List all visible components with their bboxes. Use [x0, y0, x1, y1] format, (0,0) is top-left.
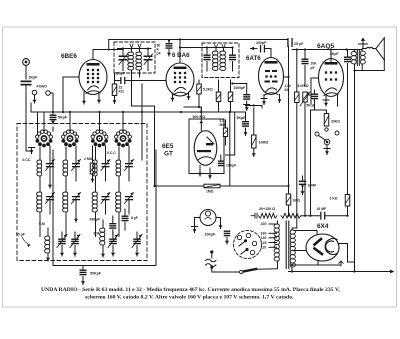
6E5 box — [189, 119, 224, 174]
wire bus y112 — [31, 103, 246, 113]
capacitor 5KpF output — [344, 50, 351, 195]
wafer ground — [29, 148, 35, 154]
gang trimmer 2 — [70, 232, 80, 256]
tube 6BE6 — [79, 60, 107, 95]
potentiometer 500K volume — [298, 84, 311, 216]
resistor 5,2K — [197, 80, 213, 107]
wire drop 2 — [43, 112, 45, 131]
ground ch2 — [74, 214, 78, 222]
wire OT down — [353, 64, 355, 272]
capacitor 10KpF eye — [218, 155, 237, 168]
tube 6BA6 — [166, 63, 194, 96]
svg-text:3 KΩ: 3 KΩ — [330, 197, 338, 201]
svg-text:430 pF: 430 pF — [90, 218, 101, 222]
padder coil ch1 — [45, 228, 50, 261]
T2 wire top — [179, 46, 234, 48]
label OM 1 — [39, 222, 45, 226]
svg-text:10KpF: 10KpF — [226, 164, 236, 168]
svg-text:30+130 Ω: 30+130 Ω — [259, 207, 275, 211]
svg-text:GT: GT — [164, 151, 173, 158]
wire T1 down right — [140, 70, 143, 160]
wire B+ row — [301, 215, 320, 217]
resistor 33K — [324, 114, 340, 132]
T1 primary coil — [128, 44, 134, 70]
svg-text:5,2KΩ: 5,2KΩ — [203, 88, 213, 92]
6AQ5 ground — [323, 96, 338, 107]
wire mid bus — [246, 104, 263, 108]
capacitor ch3 pad — [109, 216, 116, 235]
tube 6AT6 label — [246, 55, 261, 62]
oscillator coil set 1 — [37, 146, 55, 237]
gang trimmer 4 — [132, 232, 142, 256]
gang trimmer 1 — [57, 232, 67, 256]
svg-text:0,M: 0,M — [39, 222, 45, 226]
wire 6E5 right leads — [226, 112, 235, 186]
svg-text:500 KΩ: 500 KΩ — [193, 115, 206, 119]
wire T1 down left — [132, 70, 155, 106]
capacitor 150pF — [115, 72, 167, 85]
svg-text:16MF: 16MF — [308, 184, 317, 188]
capacitor 1000pF — [231, 82, 250, 110]
resistor 500K — [193, 108, 206, 131]
svg-text:6X4: 6X4 — [317, 223, 329, 230]
label OM 2 — [94, 232, 100, 236]
capacitor 10KpF coupling — [302, 50, 318, 87]
svg-text:UNDA RADIO - Serie R 63 modd.: UNDA RADIO - Serie R 63 modd. 11 e 32 - … — [41, 287, 340, 293]
wire drop 1 — [37, 112, 39, 133]
power transformer secondary — [290, 230, 295, 267]
wire 6AT6 cathode grounds — [261, 95, 282, 105]
resistor 30 ohm — [259, 213, 278, 218]
svg-text:2 MΩ: 2 MΩ — [84, 157, 93, 161]
tube 6AQ5 — [319, 59, 344, 97]
secondary leads — [292, 231, 317, 272]
6X4 cathode wire — [339, 244, 355, 263]
svg-text:10MΩ: 10MΩ — [259, 141, 269, 145]
wire drop 6 — [122, 111, 124, 131]
svg-text:KΩ: KΩ — [119, 90, 124, 94]
capacitor 5KpF AQ5 grid — [307, 90, 327, 114]
svg-text:6BE6: 6BE6 — [61, 53, 77, 60]
B+ arrow symbol — [359, 38, 368, 49]
resistor diode load 2 — [228, 80, 233, 112]
wire drop 3 — [52, 127, 54, 131]
svg-text:0,M: 0,M — [94, 232, 100, 236]
svg-text:schermo 160 V, catodo 8,2 V. A: schermo 160 V, catodo 8,2 V. Altre valvo… — [85, 295, 294, 301]
T1 secondary coil — [136, 44, 142, 70]
wire drop 4 — [69, 111, 71, 131]
wire AVC bus — [153, 185, 288, 187]
wire top bus — [109, 40, 288, 51]
AC symbol — [206, 250, 216, 269]
T2 capacitor left — [204, 48, 211, 72]
tube 6BA6 label — [172, 52, 190, 59]
wire drop 7 — [154, 106, 156, 186]
wire B+ row start — [251, 213, 257, 218]
label 430pF — [90, 218, 101, 222]
svg-text:6AQ5: 6AQ5 — [317, 43, 335, 50]
tuning box dashed — [17, 124, 147, 261]
svg-text:16 MF: 16 MF — [317, 207, 327, 211]
svg-text:5KpF: 5KpF — [237, 116, 247, 120]
label FONO — [37, 85, 48, 89]
B plus mark — [339, 261, 343, 266]
svg-text:FONO: FONO — [37, 85, 48, 89]
capacitor 50KpF bypass — [166, 39, 173, 56]
label 50pF — [16, 233, 30, 248]
capacitor 5KpF AT6 — [237, 112, 250, 136]
wafer switch S4 — [115, 130, 132, 147]
wafer switch S3 — [91, 130, 108, 147]
wire 6AQ5 grid — [308, 78, 319, 104]
wire drop 5 — [98, 111, 100, 131]
6E5 grounds — [198, 166, 212, 179]
tube 6E5 label — [162, 143, 174, 158]
svg-text:8 µF: 8 µF — [131, 216, 138, 220]
capacitor 2KpF — [21, 76, 39, 86]
label 10KpF lamp — [205, 233, 217, 237]
caption line 1 — [41, 287, 340, 293]
tube 6E5 eye — [194, 131, 217, 166]
transformer top wire — [278, 221, 297, 230]
label 8uF — [131, 216, 138, 220]
capacitor 5KpF bus — [50, 112, 68, 124]
svg-text:2KpF: 2KpF — [29, 76, 39, 80]
phono jack 1 — [32, 90, 37, 103]
wafer switch S1 — [36, 130, 53, 147]
svg-text:1000pF: 1000pF — [234, 86, 246, 90]
resistor 1M horizontal — [204, 184, 220, 193]
svg-text:pF: pF — [311, 66, 315, 70]
svg-text:33KΩ: 33KΩ — [331, 120, 340, 124]
svg-text:160: 160 — [261, 232, 267, 236]
tube 6X4 — [306, 234, 339, 261]
svg-text:200pF: 200pF — [256, 41, 267, 45]
heater line A — [284, 46, 290, 216]
resistor 1M vertical — [286, 186, 300, 216]
T1 wire top — [118, 47, 152, 49]
resistor 3K — [330, 195, 350, 217]
wire 6X4 bottom — [291, 261, 340, 267]
svg-text:10KpF: 10KpF — [205, 233, 217, 237]
svg-text:220: 220 — [261, 222, 267, 226]
wire 6BE6 plate — [93, 50, 123, 60]
label 30+130 — [259, 207, 275, 211]
T2 secondary coil — [220, 45, 226, 71]
resistor diode load 1 — [216, 80, 221, 112]
svg-text:5KpF: 5KpF — [330, 52, 338, 56]
IF transformer T1 box — [114, 42, 155, 73]
capacitor 8uF — [122, 209, 129, 230]
pilot lamp right lead — [216, 218, 223, 229]
svg-text:pF: pF — [157, 52, 161, 56]
T2 primary coil — [212, 45, 218, 71]
T1 trimmer left — [119, 49, 128, 71]
bottom bus arrow — [289, 270, 395, 274]
svg-text:150pF: 150pF — [115, 72, 125, 76]
tube 6X4 label — [317, 223, 329, 230]
svg-text:25 pF: 25 pF — [294, 42, 304, 46]
potentiometer 200K — [285, 50, 300, 229]
power transformer core — [286, 221, 289, 269]
label 50KpF — [157, 44, 161, 56]
oscillator coil set 3 — [92, 146, 110, 237]
speaker — [355, 38, 385, 71]
wire antenna down — [26, 86, 31, 152]
svg-text:125: 125 — [261, 241, 267, 245]
svg-text:140: 140 — [261, 236, 267, 240]
svg-text:5.00KΩ: 5.00KΩ — [298, 84, 310, 88]
T1 trimmer right — [144, 49, 153, 71]
caption line 2 — [85, 295, 294, 301]
T2 capacitor right — [229, 48, 236, 72]
svg-text:110: 110 — [261, 246, 267, 250]
svg-text:0.C.C: 0.C.C — [107, 151, 116, 155]
svg-text:6E5: 6E5 — [162, 143, 174, 150]
svg-text:0.CC.: 0.CC. — [23, 158, 32, 162]
gang box solid — [53, 150, 156, 266]
capacitor 25pF — [287, 38, 304, 47]
resistor 2M — [84, 146, 95, 182]
tube 6BE6 label — [61, 53, 77, 60]
svg-text:50 pF: 50 pF — [16, 233, 25, 237]
oscillator coil set 2 — [63, 146, 81, 237]
padder coil ch3 — [100, 220, 105, 257]
wire 6BA6 cathode — [171, 93, 191, 101]
mains switch — [212, 269, 278, 274]
svg-text:5KpF: 5KpF — [58, 116, 68, 120]
svg-text:6AT6: 6AT6 — [246, 55, 261, 62]
phono jack 2 — [46, 91, 53, 112]
capacitor 16MF first — [299, 176, 316, 195]
tube 6AT6 — [259, 58, 284, 96]
svg-text:6 BA6: 6 BA6 — [172, 52, 190, 59]
capacitor 200pF — [250, 41, 271, 57]
wire plate bus — [292, 48, 362, 50]
ground ch1 — [48, 181, 52, 188]
antenna jack — [23, 59, 30, 79]
svg-text:1MΩ: 1MΩ — [206, 190, 214, 194]
svg-text:KΩ: KΩ — [285, 88, 290, 92]
wire grid return — [309, 110, 314, 217]
resistor 130 ohm — [281, 213, 301, 218]
wafer switch S2 — [62, 130, 79, 147]
output transformer — [351, 50, 365, 66]
capacitor 16MF second — [317, 207, 348, 220]
wire 6BE6 cathode grounds — [82, 92, 101, 104]
capacitor 50KpF gang — [80, 266, 102, 285]
oscillator coil set 4 — [116, 146, 134, 237]
IF transformer T2 box — [202, 43, 239, 78]
label OCC left — [23, 158, 32, 162]
wire 6AQ5 plate — [330, 50, 332, 63]
voltage selector dial — [234, 231, 262, 259]
svg-text:10K: 10K — [311, 62, 318, 66]
resistor 0,5M — [220, 119, 228, 145]
pilot lamp — [200, 210, 216, 226]
capacitor lamp bypass — [224, 231, 231, 245]
resistor 22K — [112, 73, 124, 104]
svg-text:50KpF: 50KpF — [90, 272, 102, 276]
wire detector node — [184, 106, 201, 112]
svg-text:MΩ: MΩ — [220, 123, 226, 127]
tube 6AQ5 label — [317, 43, 335, 50]
resistor 10M — [252, 108, 269, 157]
label OCC right — [107, 151, 116, 155]
label 5KpF AQ5 top — [330, 52, 338, 56]
selector taps — [261, 222, 277, 249]
power transformer primary — [274, 224, 279, 269]
switch tone — [315, 131, 339, 155]
svg-text:1MΩ: 1MΩ — [293, 199, 301, 203]
wire 6BE6 left grid — [63, 77, 79, 112]
gang trimmer 3 — [108, 232, 118, 256]
wire 6BA6 plate — [179, 38, 181, 63]
pilot lamp left ground — [192, 218, 201, 233]
